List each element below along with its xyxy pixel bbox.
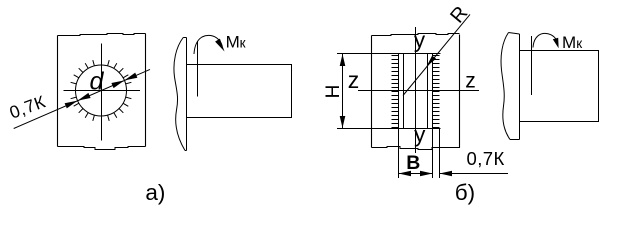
svg-text:M: M — [226, 33, 240, 52]
svg-text:z: z — [348, 67, 360, 93]
svg-text:к: к — [240, 36, 246, 51]
svg-text:R: R — [446, 2, 472, 27]
svg-text:0,7К: 0,7К — [467, 148, 505, 169]
svg-text:к: к — [576, 36, 582, 51]
svg-text:y: y — [414, 122, 426, 147]
svg-text:а): а) — [145, 180, 165, 205]
svg-text:y: y — [414, 28, 426, 53]
svg-text:H: H — [323, 85, 344, 99]
svg-text:z: z — [465, 70, 476, 93]
svg-text:б): б) — [455, 180, 475, 205]
svg-text:d: d — [90, 68, 105, 96]
svg-text:M: M — [562, 33, 576, 52]
svg-text:0,7К: 0,7К — [7, 91, 49, 122]
svg-text:B: B — [406, 152, 420, 174]
